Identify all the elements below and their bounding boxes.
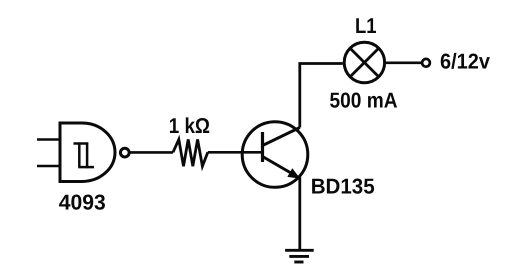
svg-text:1 kΩ: 1 kΩ xyxy=(169,114,210,138)
wire lamp to terminal xyxy=(385,61,422,64)
wire resistor to transistor base xyxy=(208,151,262,154)
lamp X diagonal 1 xyxy=(350,48,379,77)
transistor Q1 circle xyxy=(242,122,308,188)
lamp X diagonal 2 xyxy=(350,48,379,77)
svg-text:BD135: BD135 xyxy=(311,174,375,198)
transistor emitter diagonal xyxy=(263,157,298,177)
gate output inverter bubble xyxy=(120,148,129,157)
transistor collector diagonal xyxy=(263,128,300,146)
wire bubble to resistor xyxy=(131,151,174,154)
svg-text:6/12v: 6/12v xyxy=(440,49,490,73)
emitter arrowhead xyxy=(287,168,300,178)
svg-text:4093: 4093 xyxy=(59,190,106,214)
terminal circle 6/12v xyxy=(422,59,430,67)
lamp L1 circle xyxy=(344,42,384,82)
wire gate input B xyxy=(37,165,60,168)
ground symbol xyxy=(285,250,314,262)
svg-text:L1: L1 xyxy=(355,14,377,38)
wire emitter down to ground xyxy=(298,177,301,250)
Schmitt-trigger hysteresis symbol xyxy=(74,142,95,168)
NAND gate U1 (4093) body xyxy=(60,123,115,182)
wire gate input A xyxy=(37,138,60,141)
wire collector up and right to lamp xyxy=(300,64,343,128)
resistor R1 zigzag xyxy=(173,139,208,166)
svg-text:500 mA: 500 mA xyxy=(330,89,398,113)
transistor base bar xyxy=(261,132,264,162)
